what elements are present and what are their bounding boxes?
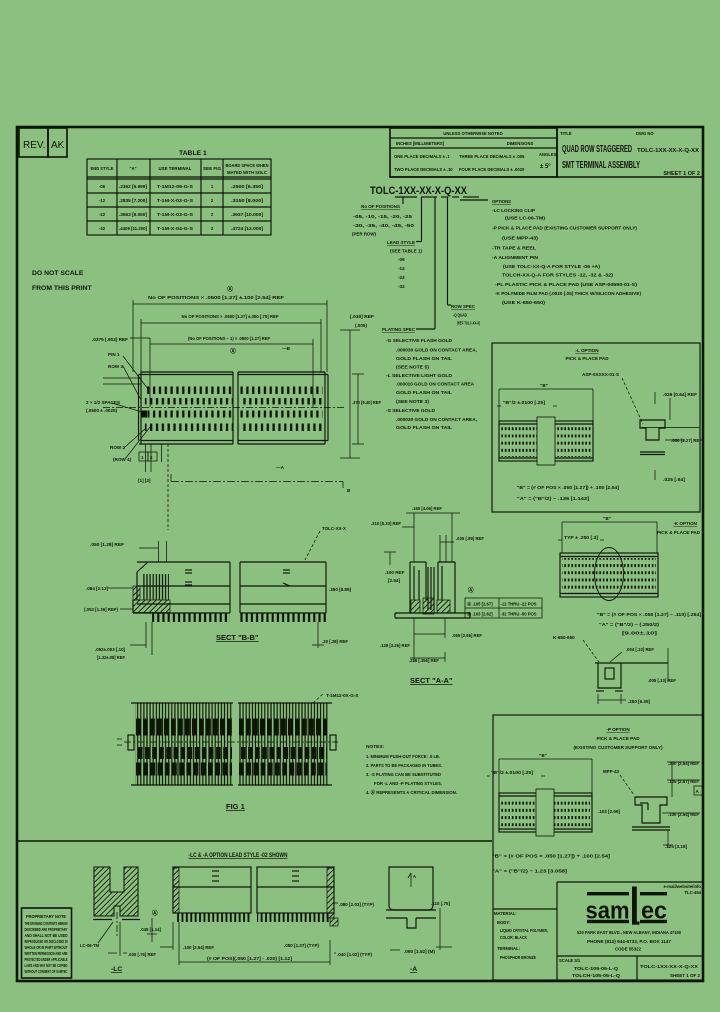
svg-text:-G SELECTIVE FLASH GOLD: -G SELECTIVE FLASH GOLD xyxy=(386,338,453,343)
svg-text:No OF POSITIONS × .0500 [1.27]: No OF POSITIONS × .0500 [1.27] ±.050 [.7… xyxy=(182,314,279,319)
svg-text:ASP-0XXXX-01-S: ASP-0XXXX-01-S xyxy=(582,372,619,377)
svg-text:-12 THRU -22 POS: -12 THRU -22 POS xyxy=(501,602,537,607)
fig1 left tick xyxy=(117,739,122,745)
svg-text:e-mail/website/info: e-mail/website/info xyxy=(664,884,702,889)
svg-text:.025 [.64]: .025 [.64] xyxy=(663,477,686,482)
A pin mark xyxy=(408,873,411,887)
svg-text:PLATING SPEC: PLATING SPEC xyxy=(382,327,416,332)
svg-text:-06: -06 xyxy=(99,184,106,189)
svg-text:NOTES:: NOTES: xyxy=(366,744,385,750)
svg-text:DO NOT SCALE: DO NOT SCALE xyxy=(32,270,84,277)
tree line: plating spec xyxy=(434,197,436,329)
svg-text:FOR -L AND -P PLATING STYLES.: FOR -L AND -P PLATING STYLES. xyxy=(374,781,442,787)
B-B body right block xyxy=(240,562,326,613)
svg-text:TLC-454: TLC-454 xyxy=(684,890,701,895)
connector 2 comb xyxy=(257,913,329,922)
svg-text:(USE LC-06-TM): (USE LC-06-TM) xyxy=(505,216,546,221)
K B dim xyxy=(562,522,657,553)
svg-text:USE TERMINAL: USE TERMINAL xyxy=(159,166,192,171)
svg-text:.050 [1.28] REF: .050 [1.28] REF xyxy=(90,542,124,547)
svg-text:-05, -10, -15, -20, -25: -05, -10, -15, -20, -25 xyxy=(353,214,413,219)
B-B bottom left dims xyxy=(130,622,152,655)
LC dim .045 xyxy=(147,918,157,942)
svg-text:-32 THRU -50 POS: -32 THRU -50 POS xyxy=(501,612,537,617)
svg-text:2: 2 xyxy=(150,455,153,460)
svg-text:PICK & PLACE PAD: PICK & PLACE PAD xyxy=(657,530,701,535)
connector 1 comb xyxy=(176,913,251,922)
connector view 1 body xyxy=(173,867,251,913)
svg-text:PICK & PLACE PAD: PICK & PLACE PAD xyxy=(565,356,609,361)
svg-text:2. PARTS TO BE PACKAGED IN TUB: 2. PARTS TO BE PACKAGED IN TUBES. xyxy=(366,763,442,769)
svg-text:Ⓐ: Ⓐ xyxy=(227,285,233,293)
svg-text:(SEE NOTE 3): (SEE NOTE 3) xyxy=(396,399,430,404)
section A cut line xyxy=(171,474,343,488)
svg-text:INCHES [MILLIMETERS]: INCHES [MILLIMETERS] xyxy=(396,141,445,146)
svg-text:ROW SPEC: ROW SPEC xyxy=(451,304,476,309)
svg-text:TOLC-1XX-XX-X-Q-XX: TOLC-1XX-XX-X-Q-XX xyxy=(640,964,698,969)
svg-text:[2.54]: [2.54] xyxy=(388,578,400,583)
title block divider lines xyxy=(493,882,703,980)
svg-text:T-1M-X-04-G-S: T-1M-X-04-G-S xyxy=(157,226,193,231)
svg-text:COLOR: BLACK: COLOR: BLACK xyxy=(500,935,527,940)
svg-text:—B: —B xyxy=(282,346,291,351)
svg-text:.228 [.356] REF: .228 [.356] REF xyxy=(409,658,439,663)
svg-text:FIG 1: FIG 1 xyxy=(226,802,245,811)
svg-text:.000030 GOLD ON CONTACT AREA,: .000030 GOLD ON CONTACT AREA, xyxy=(396,417,477,422)
svg-text:520 PARK EAST BLVD., NEW ALBAN: 520 PARK EAST BLVD., NEW ALBANY, INDIANA… xyxy=(577,930,681,935)
svg-text:.125 [3.18]: .125 [3.18] xyxy=(665,844,687,849)
svg-text:.370 [9.40] REF: .370 [9.40] REF xyxy=(352,400,381,405)
svg-text:(USE MPP-43): (USE MPP-43) xyxy=(502,236,539,241)
svg-text:T-1M12-06-G-S: T-1M12-06-G-S xyxy=(157,184,193,189)
svg-text:-TR TAPE & REEL: -TR TAPE & REEL xyxy=(492,246,536,251)
svg-text:-12: -12 xyxy=(398,266,405,271)
svg-text:(No OF POSITIONS − 1) × .0500: (No OF POSITIONS − 1) × .0500 [1.27] REF xyxy=(188,336,270,341)
fig1 frame lines xyxy=(131,703,332,785)
LC hatched clip xyxy=(94,867,138,916)
svg-text:TOLC-1XX-XX-X-Q-XX: TOLC-1XX-XX-X-Q-XX xyxy=(637,148,699,154)
LC board lines xyxy=(93,919,140,921)
svg-text:.000030 GOLD ON CONTACT AREA,: .000030 GOLD ON CONTACT AREA, xyxy=(396,348,477,353)
svg-text:.2500 [6.350]: .2500 [6.350] xyxy=(231,184,264,189)
svg-text:FOUR PLACE DECIMALS ± .0020: FOUR PLACE DECIMALS ± .0020 xyxy=(459,167,525,172)
L side section xyxy=(640,420,665,455)
svg-text:.4409 [11.200]: .4409 [11.200] xyxy=(119,226,148,231)
svg-text:"A" = ("B"/2) − (.250/2): "A" = ("B"/2) − (.250/2) xyxy=(599,622,660,627)
svg-text:PHONE (812) 944-6733, P.O. BOX: PHONE (812) 944-6733, P.O. BOX 1147 xyxy=(587,939,671,944)
REV value AK box xyxy=(48,128,67,157)
svg-text:(.053 [1.36] REF): (.053 [1.36] REF) xyxy=(84,607,118,612)
A-A spec table xyxy=(465,598,542,618)
svg-text:No OF POSITIONS: No OF POSITIONS xyxy=(361,204,400,209)
svg-text:.035 [.89] REF: .035 [.89] REF xyxy=(456,536,484,541)
svg-text:-LC: -LC xyxy=(111,966,122,973)
L option top view body xyxy=(499,421,593,461)
K dot field xyxy=(562,558,656,593)
B-B equal marks left xyxy=(185,570,192,585)
svg-text:-L SELECTIVE LIGHT GOLD: -L SELECTIVE LIGHT GOLD xyxy=(386,373,453,378)
svg-text:Ⓐ: Ⓐ xyxy=(152,909,158,917)
svg-text:[1.32±.08] REF: [1.32±.08] REF xyxy=(97,655,125,660)
terminal leader xyxy=(313,693,324,703)
svg-text:SCALE 3/1: SCALE 3/1 xyxy=(559,958,581,963)
K film pad ellipse xyxy=(595,548,624,601)
connector 2 hatched right wall xyxy=(327,868,334,918)
svg-text:-12: -12 xyxy=(99,198,106,203)
svg-text:.102 [2.59]: .102 [2.59] xyxy=(598,809,620,814)
svg-text:.030 [.76] REF: .030 [.76] REF xyxy=(128,952,156,957)
svg-text:.0375 [.953] REF: .0375 [.953] REF xyxy=(92,337,128,342)
svg-text:± 5°: ± 5° xyxy=(540,164,551,170)
svg-text:THREE PLACE DECIMALS ± .005: THREE PLACE DECIMALS ± .005 xyxy=(459,154,525,159)
svg-text:.080 [2.03] (TYP): .080 [2.03] (TYP) xyxy=(339,902,374,907)
svg-text:TOLCH-105-05-L-Q: TOLCH-105-05-L-Q xyxy=(572,973,621,978)
svg-text:"B" = (# OF POS × .050 [1.27]: "B" = (# OF POS × .050 [1.27] − .110) [.… xyxy=(597,612,702,617)
svg-text:PICK & PLACE PAD: PICK & PLACE PAD xyxy=(596,736,640,741)
svg-text:.040 [1.02] (TYP): .040 [1.02] (TYP) xyxy=(337,952,372,957)
svg-text:MPP-43: MPP-43 xyxy=(603,769,619,774)
svg-text:1. MINIMUM PUSH-OUT FORCE: .5: 1. MINIMUM PUSH-OUT FORCE: .5 LB. xyxy=(366,754,440,760)
B-B hatched foot left xyxy=(133,600,170,613)
title block (top right) xyxy=(390,128,703,177)
svg-text:.2362 [5.999]: .2362 [5.999] xyxy=(119,184,148,189)
svg-text:PROPRIETARY NOTE: PROPRIETARY NOTE xyxy=(26,914,66,919)
svg-text:.004 [.10] REF: .004 [.10] REF xyxy=(626,647,654,652)
P section dims xyxy=(662,762,700,848)
connector 1 equal marks xyxy=(212,871,219,881)
A-A bottom dims xyxy=(410,618,445,662)
svg-text:-06: -06 xyxy=(398,257,405,262)
P center band xyxy=(536,789,554,836)
svg-text:3. -S PLATING CAN BE SUBSTITUT: 3. -S PLATING CAN BE SUBSTITUTED xyxy=(366,772,441,778)
proprietary note box xyxy=(22,908,72,978)
svg-text:.2835 [7.200]: .2835 [7.200] xyxy=(119,198,148,203)
svg-text:DESCRIBED ARE PROPRIETARY: DESCRIBED ARE PROPRIETARY xyxy=(25,927,68,932)
P side section xyxy=(632,797,670,830)
tree line: positions xyxy=(402,197,404,204)
svg-text:(ROW 4): (ROW 4) xyxy=(113,457,132,462)
pin row 1 xyxy=(145,387,232,395)
datum boxes D1 D2 xyxy=(139,452,148,461)
L center band xyxy=(537,417,555,465)
fig1 centerline xyxy=(124,741,338,743)
svg-text:"A" = ("B"/2) − .135 [1.143]: "A" = ("B"/2) − .135 [1.143] xyxy=(517,496,590,501)
svg-text:.4724 [12.000]: .4724 [12.000] xyxy=(231,226,264,231)
svg-text:-Q QUAD: -Q QUAD xyxy=(453,313,467,318)
svg-text:-LC LOCKING CLIP: -LC LOCKING CLIP xyxy=(492,208,535,213)
A body xyxy=(386,867,436,928)
svg-text:GOLD FLASH ON TAIL: GOLD FLASH ON TAIL xyxy=(396,425,452,430)
svg-text:.100 REF: .100 REF xyxy=(385,570,405,575)
svg-text:[9.00±.10]: [9.00±.10] xyxy=(622,631,658,636)
dimension 1 line xyxy=(133,300,327,372)
svg-text:SECT "A-A": SECT "A-A" xyxy=(410,676,453,685)
svg-text:A: A xyxy=(413,874,416,879)
svg-text:(USE TOLC-XX-Q-A FOR STYLE -06: (USE TOLC-XX-Q-A FOR STYLE -06 +A) xyxy=(503,264,601,269)
samtec logo xyxy=(586,887,668,925)
svg-text:-32: -32 xyxy=(99,226,106,231)
svg-text:T-1M12-0X-G-S: T-1M12-0X-G-S xyxy=(326,693,358,698)
svg-text:LAWS AND MAY NOT BE COPIED: LAWS AND MAY NOT BE COPIED xyxy=(25,963,68,968)
svg-text:REV.: REV. xyxy=(23,140,45,151)
svg-text:.025 [0.64] REF: .025 [0.64] REF xyxy=(663,392,697,397)
svg-text:-22: -22 xyxy=(99,212,106,217)
svg-text:(.0500 ± .0025): (.0500 ± .0025) xyxy=(86,408,118,413)
svg-text:DIMENSIONS: DIMENSIONS xyxy=(507,141,534,146)
svg-text:.3937 [10.000]: .3937 [10.000] xyxy=(231,212,264,217)
svg-text:.045 [1.14]: .045 [1.14] xyxy=(140,927,161,932)
svg-text:TOLC-1XX-XX-X-Q-XX: TOLC-1XX-XX-X-Q-XX xyxy=(370,185,468,197)
polarization mark xyxy=(142,411,148,418)
A-A hatched bases xyxy=(411,600,420,613)
pin row 4 xyxy=(145,424,324,432)
svg-text:ROW 2: ROW 2 xyxy=(110,445,126,450)
pin row 3 xyxy=(148,411,232,418)
svg-text:MATERIAL:: MATERIAL: xyxy=(494,911,517,916)
centerline xyxy=(103,407,345,409)
L B dim xyxy=(499,389,593,421)
svg-text:QUAD ROW STAGGERED: QUAD ROW STAGGERED xyxy=(562,143,632,155)
svg-text:-K OPTION: -K OPTION xyxy=(673,521,697,526)
svg-text:(REF TOLC-XX-X): (REF TOLC-XX-X) xyxy=(457,321,480,326)
connector body left block xyxy=(139,372,234,444)
svg-text:REPRODUCED OR DISCLOSED IN: REPRODUCED OR DISCLOSED IN xyxy=(25,939,68,944)
connector view 2 body xyxy=(257,867,334,913)
P top view body xyxy=(499,793,592,832)
A-A bottom flange xyxy=(395,613,470,618)
svg-text:OPTIONS: OPTIONS xyxy=(492,199,511,204)
svg-text:.050 [1.27] REF: .050 [1.27] REF xyxy=(671,438,702,443)
svg-text:-P PICK & PLACE PAD (EXISTING: -P PICK & PLACE PAD (EXISTING CUSTOMER S… xyxy=(492,226,637,231)
svg-text:.160 [4.06] REF: .160 [4.06] REF xyxy=(412,506,442,511)
svg-text:No OF POSITIONS × .0500 [1.27]: No OF POSITIONS × .0500 [1.27] ±.100 [2.… xyxy=(148,295,284,300)
svg-text:"B": "B" xyxy=(540,383,548,388)
REV box xyxy=(19,128,48,157)
svg-text:T-1M-X-03-G-S: T-1M-X-03-G-S xyxy=(157,212,193,217)
dimension 3 line xyxy=(130,338,313,407)
svg-text:.084 [2.13]: .084 [2.13] xyxy=(86,586,108,591)
svg-text:1: 1 xyxy=(141,455,144,460)
svg-text:DWG NO: DWG NO xyxy=(636,131,654,136)
svg-text:LC-06-TM: LC-06-TM xyxy=(80,943,99,948)
svg-text:TITLE: TITLE xyxy=(560,131,572,136)
svg-text:.050 [1.27] (TYP): .050 [1.27] (TYP) xyxy=(284,943,319,948)
leader lines to rows xyxy=(103,356,150,459)
svg-text:.100 [2.54] REF: .100 [2.54] REF xyxy=(183,945,214,950)
svg-text:ROW 3: ROW 3 xyxy=(108,364,124,369)
fig1 left block comb xyxy=(135,703,233,785)
svg-text:AK: AK xyxy=(51,140,65,151)
svg-text:(# OF POS)(.050 [1.27] - .020): (# OF POS)(.050 [1.27] - .020) [1.12] xyxy=(207,956,293,961)
svg-text:THE DRAWING CONTENTS HEREIN: THE DRAWING CONTENTS HEREIN xyxy=(25,921,68,926)
svg-text:.060 [1.52] (M): .060 [1.52] (M) xyxy=(404,949,435,954)
svg-text:Ⓐ .103 [2.62]: Ⓐ .103 [2.62] xyxy=(467,611,493,618)
pin row 2 xyxy=(145,398,324,405)
dim .100 left xyxy=(160,922,179,965)
fig1 right block comb xyxy=(238,703,328,785)
svg-text:(USE K-650-650): (USE K-650-650) xyxy=(502,300,546,305)
svg-text:TABLE 1: TABLE 1 xyxy=(179,150,207,157)
svg-text:.350 [8.89]: .350 [8.89] xyxy=(329,587,351,592)
svg-text:2 × 1/2 SPACES: 2 × 1/2 SPACES xyxy=(86,400,120,405)
tree line: lead style xyxy=(421,197,423,242)
svg-text:[.030] REF: [.030] REF xyxy=(350,314,374,319)
table 1 data rows xyxy=(99,184,264,231)
svg-text:T-1M-X-02-G-S: T-1M-X-02-G-S xyxy=(157,198,193,203)
svg-text:"A": "A" xyxy=(130,166,137,171)
long dim xyxy=(179,940,330,965)
svg-text:-32: -32 xyxy=(398,284,405,289)
svg-text:GOLD FLASH ON TAIL: GOLD FLASH ON TAIL xyxy=(396,390,452,395)
svg-text:.000010 GOLD ON CONTACT AREA: .000010 GOLD ON CONTACT AREA xyxy=(396,382,475,387)
svg-text:(SEE TABLE 1): (SEE TABLE 1) xyxy=(390,249,422,254)
svg-text:ANGLES: ANGLES xyxy=(539,152,557,157)
svg-text:SECT "B-B": SECT "B-B" xyxy=(216,633,259,642)
svg-text:(EXISTING CUSTOMER SUPPORT ONL: (EXISTING CUSTOMER SUPPORT ONLY) xyxy=(573,745,663,750)
svg-text:SHEET 1 OF 2: SHEET 1 OF 2 xyxy=(670,973,701,978)
svg-text:AND SHALL NOT BE USED: AND SHALL NOT BE USED xyxy=(25,933,68,938)
svg-text:.250 [6.35]: .250 [6.35] xyxy=(628,699,650,704)
svg-text:-30, -35, -40, -45, -50: -30, -35, -40, -45, -50 xyxy=(353,223,415,228)
svg-text:PIN 1: PIN 1 xyxy=(108,352,120,357)
P B dim xyxy=(499,759,592,793)
svg-text:Ⓐ .105 [2.67]: Ⓐ .105 [2.67] xyxy=(467,601,493,608)
L section dims xyxy=(642,392,700,480)
LC centerline xyxy=(116,912,118,936)
dimension 2 line xyxy=(141,319,321,372)
connector 2 equal marks xyxy=(292,871,299,881)
svg-text:LIQUID CRYSTAL POLYMER,: LIQUID CRYSTAL POLYMER, xyxy=(500,928,548,933)
svg-text:-A ALIGNMENT PIN: -A ALIGNMENT PIN xyxy=(492,255,539,260)
svg-text:TOLC-105-05-L-Q: TOLC-105-05-L-Q xyxy=(574,966,619,971)
svg-text:WITHOUT CONSENT OF SAMTEC: WITHOUT CONSENT OF SAMTEC xyxy=(25,969,68,974)
svg-text:FROM THIS PRINT: FROM THIS PRINT xyxy=(32,285,93,292)
divider line xyxy=(17,840,492,842)
fig1 right end bracket xyxy=(330,735,336,750)
B-B contact pins xyxy=(142,574,169,600)
svg-text:.052±.003 [.10]: .052±.003 [.10] xyxy=(95,647,125,652)
P dot field xyxy=(501,798,536,828)
svg-text:TOLCH-XX-Q-A FOR STYLES -12, -: TOLCH-XX-Q-A FOR STYLES -12, -32 & -32) xyxy=(502,273,614,278)
right side dim .370 xyxy=(352,374,364,444)
svg-text:—A: —A xyxy=(276,465,285,470)
svg-text:.20 [.28] REF: .20 [.28] REF xyxy=(322,639,348,644)
svg-text:"B" = (# OF POS × .050 [1.27]): "B" = (# OF POS × .050 [1.27]) + .100 [2… xyxy=(492,854,611,859)
svg-text:"B": "B" xyxy=(603,516,611,521)
tree line: options xyxy=(460,199,488,201)
svg-text:ONE PLACE DECIMALS ± .1: ONE PLACE DECIMALS ± .1 xyxy=(394,154,450,159)
svg-text:TWO PLACE DECIMALS ± .10: TWO PLACE DECIMALS ± .10 xyxy=(394,167,453,172)
svg-text:WRITTEN PERMISSION AND ARE: WRITTEN PERMISSION AND ARE xyxy=(25,951,68,956)
svg-text:.300 [2.54] REF: .300 [2.54] REF xyxy=(668,761,699,766)
svg-text:PHOSPHOR BRONZE: PHOSPHOR BRONZE xyxy=(500,955,536,960)
svg-text:Ⓐ: Ⓐ xyxy=(230,347,236,355)
svg-text:(.005): (.005) xyxy=(355,323,367,328)
svg-text:.005 [.13] REF: .005 [.13] REF xyxy=(648,678,676,683)
svg-text:[1] [2]: [1] [2] xyxy=(138,478,151,483)
svg-text:K-650-650: K-650-650 xyxy=(553,635,575,640)
right side dim 0.030 xyxy=(340,330,360,458)
B-B equal marks right xyxy=(283,570,290,586)
svg-text:"A" = ("B"/2) − 1.23 [3.058]: "A" = ("B"/2) − 1.23 [3.058] xyxy=(492,869,568,874)
svg-text:PROTECTED UNDER APPLICABLE: PROTECTED UNDER APPLICABLE xyxy=(25,957,68,962)
svg-text:SEE FIG: SEE FIG xyxy=(203,166,221,171)
svg-text:-L OPTION: -L OPTION xyxy=(575,348,599,353)
svg-text:-K POLYMIDE FILM PAD (.0020 [: -K POLYMIDE FILM PAD (.0020 [.05] THICK … xyxy=(495,291,641,296)
svg-text:BOARD SPACE WHEN: BOARD SPACE WHEN xyxy=(226,163,269,168)
connector 2 lead foot xyxy=(330,918,338,926)
svg-text:-S SELECTIVE GOLD: -S SELECTIVE GOLD xyxy=(386,408,436,413)
svg-text:.3150 [8.000]: .3150 [8.000] xyxy=(231,198,264,203)
svg-text:TERMINAL:: TERMINAL: xyxy=(497,946,520,951)
tree line: row spec xyxy=(447,197,449,305)
svg-text:MATED WITH SOLC: MATED WITH SOLC xyxy=(227,170,267,175)
svg-text:TYP ± .250 [.3]: TYP ± .250 [.3] xyxy=(564,535,598,540)
A-A body towers xyxy=(410,562,455,613)
svg-text:-22: -22 xyxy=(398,275,405,280)
fig1 left end bracket xyxy=(128,735,134,750)
svg-text:(PER ROW): (PER ROW) xyxy=(352,232,376,237)
L pad dot field xyxy=(501,426,537,457)
svg-text:4. Ⓐ REPRESENTS A CRITICAL DIM: 4. Ⓐ REPRESENTS A CRITICAL DIMENSION. xyxy=(366,789,457,796)
svg-text:.100 [2.54] REF: .100 [2.54] REF xyxy=(668,812,699,817)
svg-text:"B"/2 ±.0100 [.25]: "B"/2 ±.0100 [.25] xyxy=(503,400,546,405)
svg-text:SMT TERMINAL ASSEMBLY: SMT TERMINAL ASSEMBLY xyxy=(562,159,640,171)
table 1 header row xyxy=(91,163,269,175)
LC dim .030 xyxy=(108,922,127,956)
svg-text:-A: -A xyxy=(410,966,417,973)
svg-text:LEAD STYLE: LEAD STYLE xyxy=(387,240,415,245)
table 1 grid xyxy=(87,159,271,235)
svg-text:UNLESS OTHERWISE NOTED: UNLESS OTHERWISE NOTED xyxy=(443,131,502,136)
svg-text:.105 [2.67] REF: .105 [2.67] REF xyxy=(668,779,699,784)
svg-text:.110 [.75]: .110 [.75] xyxy=(431,901,450,906)
K pad detail xyxy=(595,663,668,691)
svg-text:.210 [5.33] REF: .210 [5.33] REF xyxy=(371,521,401,526)
svg-text:WHOLE OR IN PART WITHOUT: WHOLE OR IN PART WITHOUT xyxy=(25,945,68,950)
svg-text:.065 [2.65] REF: .065 [2.65] REF xyxy=(452,633,482,638)
svg-text:"B": "B" xyxy=(539,753,547,758)
svg-text:END STYLE: END STYLE xyxy=(91,166,114,171)
svg-text:.128 [3.26] REF: .128 [3.26] REF xyxy=(380,643,410,648)
svg-text:(SEE NOTE 5): (SEE NOTE 5) xyxy=(396,365,430,370)
B-B body left block xyxy=(133,562,230,613)
svg-text:.3563 [9.050]: .3563 [9.050] xyxy=(119,212,148,217)
fig1 blob bands right xyxy=(239,727,327,769)
fig1 blob bands left xyxy=(136,727,232,769)
tolerance block xyxy=(390,128,557,177)
svg-text:"B"/2 ±.0100 [.25]: "B"/2 ±.0100 [.25] xyxy=(491,770,534,775)
connector body right block xyxy=(238,372,328,444)
svg-text:-PL PLASTIC PICK & PLACE PAD: -PL PLASTIC PICK & PLACE PAD (USE ASP-00… xyxy=(495,282,638,287)
svg-text:Ⓐ: Ⓐ xyxy=(468,586,474,594)
svg-text:BODY:: BODY: xyxy=(497,920,510,925)
svg-text:CODE 55322: CODE 55322 xyxy=(615,947,641,952)
K top view body xyxy=(560,553,658,597)
svg-text:"B" = (# OF POS × .050 [1.27]): "B" = (# OF POS × .050 [1.27]) + .100 [2… xyxy=(517,485,620,490)
svg-text:TOLC-XX-X: TOLC-XX-X xyxy=(322,526,347,531)
svg-text:GOLD FLASH ON TAIL: GOLD FLASH ON TAIL xyxy=(396,356,452,361)
svg-text:-P OPTION: -P OPTION xyxy=(606,727,630,732)
B-B comb teeth xyxy=(152,613,230,622)
bottom extension pair xyxy=(146,444,169,530)
svg-text:SHEET 1 OF 2: SHEET 1 OF 2 xyxy=(663,171,700,177)
svg-text:-LC & -A OPTION LEAD STYLE -02: -LC & -A OPTION LEAD STYLE -02 SHOWN xyxy=(189,852,288,859)
connector 1 hatched left wall xyxy=(173,868,179,913)
